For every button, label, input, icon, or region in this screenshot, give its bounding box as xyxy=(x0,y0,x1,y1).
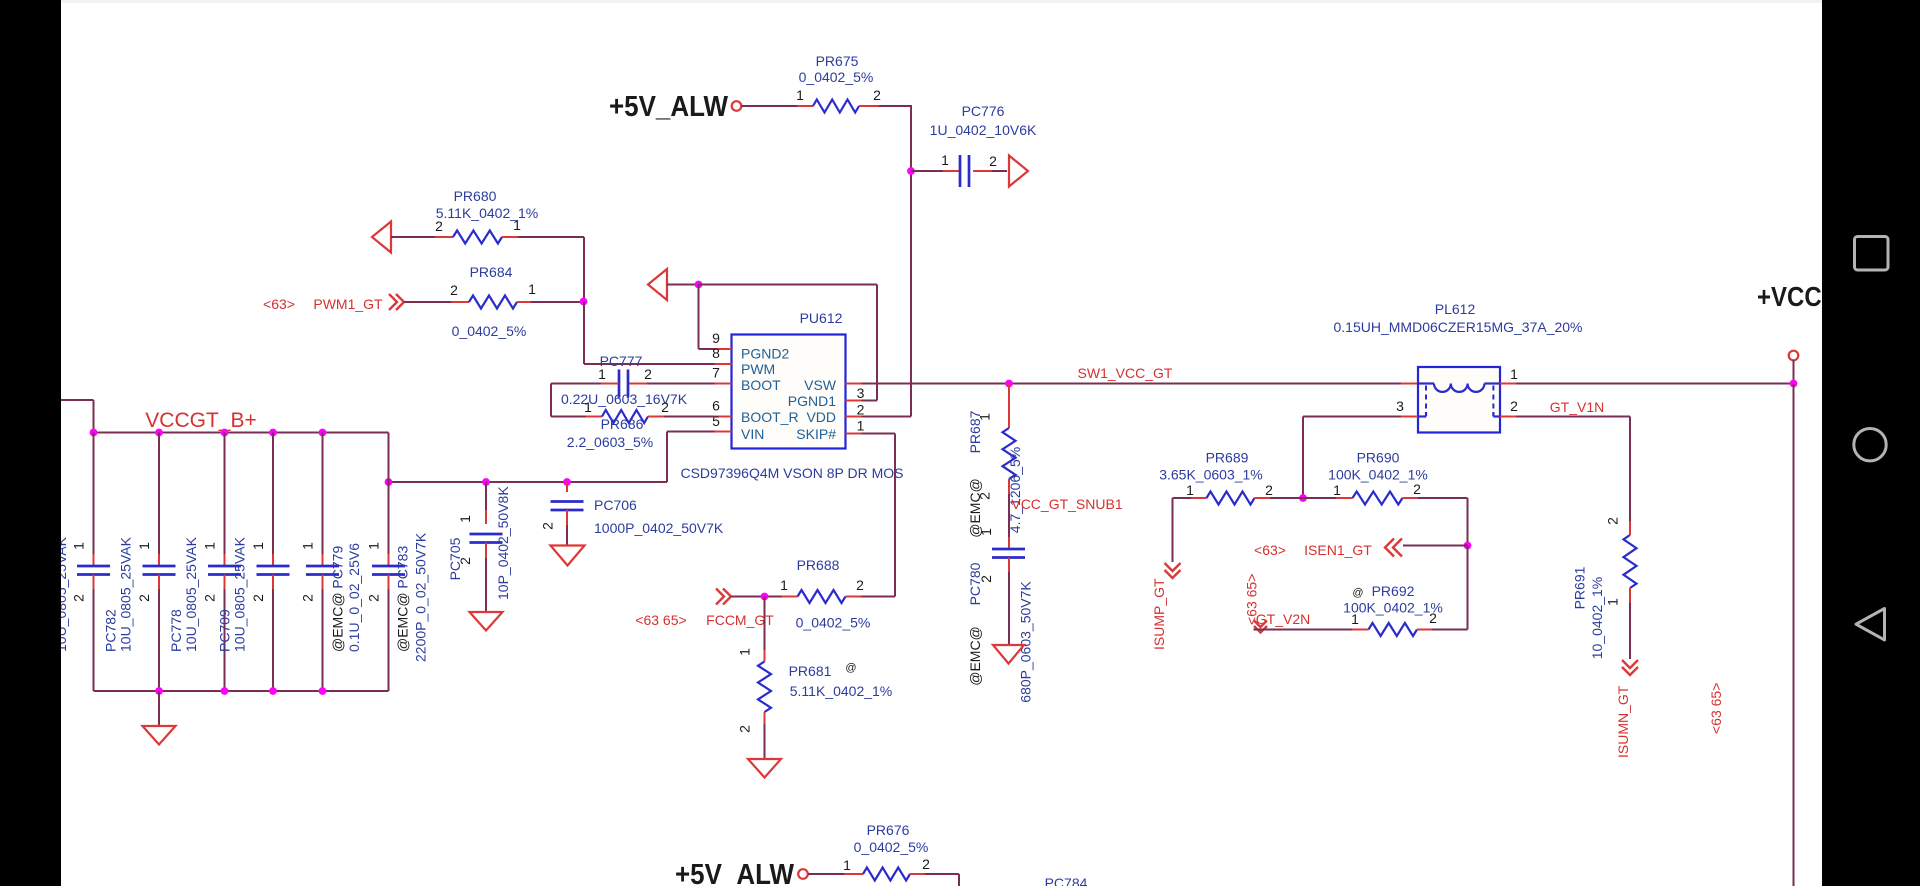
svg-text:PWM1_GT: PWM1_GT xyxy=(313,296,383,312)
wire PR676 pin2 corner xyxy=(925,874,959,886)
svg-text:0_0402_5%: 0_0402_5% xyxy=(854,839,929,855)
svg-text:1: 1 xyxy=(1333,482,1341,498)
svg-text:2: 2 xyxy=(366,594,382,602)
svg-text:1: 1 xyxy=(457,515,473,523)
nav icon home (circle) xyxy=(1854,429,1886,461)
svg-text:10_0402_1%: 10_0402_1% xyxy=(1589,577,1605,660)
ground PC705 xyxy=(470,612,503,631)
wire bus corner down to VIN bus xyxy=(388,433,390,483)
svg-text:1: 1 xyxy=(941,152,949,168)
svg-text:1: 1 xyxy=(843,857,851,873)
node junction bottom bus x273 xyxy=(269,687,277,695)
svg-text:ISUMP_GT: ISUMP_GT xyxy=(1151,578,1167,650)
node junction bus x94 xyxy=(90,429,98,437)
svg-text:5.11K_0402_1%: 5.11K_0402_1% xyxy=(436,205,539,221)
svg-text:0_0402_5%: 0_0402_5% xyxy=(799,69,874,85)
PL612 pin 3 stub xyxy=(1396,398,1418,417)
resistor PR686 xyxy=(567,399,669,450)
ground PR681 xyxy=(748,759,781,778)
resistor PR692 xyxy=(1343,583,1467,636)
resistor PR689 xyxy=(1159,450,1303,505)
wire PR692 pin2 up to ISEN node xyxy=(1467,546,1469,630)
wire BOOT pin7 left xyxy=(647,383,715,385)
wire PC777 to PR686 (left loop) xyxy=(551,384,601,417)
wire +VCC terminal xyxy=(1793,360,1795,384)
svg-text:PR691: PR691 xyxy=(1572,566,1588,609)
port arrow (left) PGND xyxy=(648,269,667,300)
node junction PWM net xyxy=(580,298,588,306)
node junction VIN bus at PC705 xyxy=(482,478,490,486)
capacitor PC706 xyxy=(540,482,724,546)
net label PWM1_GT xyxy=(263,296,383,312)
wire SKIP# down to PR688 xyxy=(861,434,895,597)
svg-text:+5V_ALW: +5V_ALW xyxy=(675,859,795,886)
svg-text:@EMC@: @EMC@ xyxy=(967,626,983,686)
capacitor PC777 xyxy=(561,353,688,407)
svg-text:1: 1 xyxy=(528,281,536,297)
svg-text:PC709: PC709 xyxy=(217,609,233,652)
svg-text:9: 9 xyxy=(712,330,720,346)
svg-text:PL612: PL612 xyxy=(1435,301,1476,317)
svg-text:PR689: PR689 xyxy=(1206,450,1249,466)
svg-text:1000P_0402_50V7K: 1000P_0402_50V7K xyxy=(594,520,724,536)
resistor PR676 xyxy=(843,822,930,881)
node junction bus x224 xyxy=(221,429,229,437)
wire PGND port to junction xyxy=(667,284,699,286)
node junction +VCC xyxy=(1790,380,1798,388)
PU612 pin 5 stub xyxy=(712,413,731,432)
svg-text:PU612: PU612 xyxy=(800,310,843,326)
svg-text:+5V_ALW: +5V_ALW xyxy=(609,91,729,123)
wire +5V_ALW bottom to PR676 xyxy=(808,873,844,875)
inductor PL612 xyxy=(1334,301,1583,433)
svg-text:1: 1 xyxy=(513,217,521,233)
terminal circle +5V_ALW (bottom) xyxy=(798,869,808,879)
wire PR686 pin2 to pin6 xyxy=(664,416,715,418)
resistor PR680 xyxy=(435,188,538,244)
net label GT_V2N xyxy=(1244,574,1311,627)
svg-text:PC705: PC705 xyxy=(447,537,463,580)
wire ISEN1_GT xyxy=(1403,545,1468,547)
svg-text:5: 5 xyxy=(712,413,720,429)
nav icon recents (square) xyxy=(1855,237,1889,271)
capacitor PC784 label xyxy=(1045,875,1088,886)
wire PGND junction to PGND1 xyxy=(699,285,878,401)
svg-text:1: 1 xyxy=(1510,366,1518,382)
svg-text:1: 1 xyxy=(598,366,606,382)
node junction at PC776 tap xyxy=(907,167,915,175)
capacitor PC709 xyxy=(217,433,290,692)
capacitor PC779 xyxy=(300,433,363,692)
ground cap bank xyxy=(143,726,176,745)
svg-text:PR686: PR686 xyxy=(601,416,644,432)
node junction bottom bus x322 xyxy=(319,687,327,695)
svg-text:2.2_0603_5%: 2.2_0603_5% xyxy=(567,434,653,450)
svg-text:2: 2 xyxy=(300,594,316,602)
port arrow (right) at PC776 pin2 xyxy=(1009,156,1028,187)
svg-text:<63 65>: <63 65> xyxy=(1708,683,1724,734)
node junction PGND xyxy=(695,281,703,289)
capacitor bank cap1 (10U_0805_25VAK) xyxy=(53,433,110,692)
wire PR680 pin1 to vertical xyxy=(518,237,584,302)
svg-text:VDD: VDD xyxy=(806,409,836,425)
svg-text:0_0402_5%: 0_0402_5% xyxy=(452,323,527,339)
right phone nav bar xyxy=(1822,0,1920,886)
svg-text:PR688: PR688 xyxy=(797,557,840,573)
wire +VCC down xyxy=(1793,384,1795,886)
svg-text:4.7_1206_5%: 4.7_1206_5% xyxy=(1007,447,1023,533)
svg-text:PGND1: PGND1 xyxy=(788,393,836,409)
svg-text:PC706: PC706 xyxy=(594,497,637,513)
PL612 pin 2 stub xyxy=(1500,398,1518,417)
svg-text:PC776: PC776 xyxy=(962,103,1005,119)
svg-text:0_0402_5%: 0_0402_5% xyxy=(796,615,871,631)
capacitor PC778 xyxy=(168,433,241,692)
svg-text:2: 2 xyxy=(644,366,652,382)
nav icon back (triangle) xyxy=(1856,609,1885,640)
svg-text:2: 2 xyxy=(856,577,864,593)
svg-text:BOOT: BOOT xyxy=(741,377,781,393)
terminal circle +5V_ALW (top) xyxy=(732,101,742,111)
svg-text:VSW: VSW xyxy=(804,377,837,393)
svg-text:6: 6 xyxy=(712,398,720,414)
wire VIN pin5 to bus xyxy=(389,432,715,483)
wire PR690 pin2 down to ISEN node xyxy=(1467,498,1469,546)
capacitor PC782 xyxy=(103,433,176,692)
svg-text:1: 1 xyxy=(202,542,218,550)
PU612 pin 3 stub xyxy=(846,384,878,402)
svg-text:SKIP#: SKIP# xyxy=(796,426,836,442)
svg-text:PGND2: PGND2 xyxy=(741,346,789,362)
resistor PR684 xyxy=(450,264,536,339)
svg-text:1: 1 xyxy=(71,542,87,550)
svg-text:ISEN1_GT: ISEN1_GT xyxy=(1304,542,1372,558)
capacitor PC783 xyxy=(366,482,429,691)
capacitor PC705 xyxy=(447,482,511,612)
svg-text:10U_0805_25VAK: 10U_0805_25VAK xyxy=(232,536,248,652)
net label ISUMN_GT xyxy=(1615,685,1631,758)
PU612 pin 2 stub xyxy=(846,401,865,418)
svg-text:@: @ xyxy=(1352,587,1363,599)
resistor PR675 xyxy=(796,53,881,113)
port chevron ISUMN_GT xyxy=(1622,660,1638,675)
wire +5V_ALW to PR675 pin1 xyxy=(742,105,798,107)
svg-text:1U_0402_10V6K: 1U_0402_10V6K xyxy=(930,122,1037,138)
svg-text:2: 2 xyxy=(1413,481,1421,497)
svg-text:1: 1 xyxy=(136,542,152,550)
svg-text:2: 2 xyxy=(737,725,753,733)
svg-text:1: 1 xyxy=(1605,598,1621,606)
svg-text:1: 1 xyxy=(978,528,994,536)
op-amp U1 PU612 IC body xyxy=(732,310,846,449)
wire port to PR680 xyxy=(391,236,435,238)
resistor PR687 xyxy=(967,384,1023,538)
svg-text:1: 1 xyxy=(1186,482,1194,498)
svg-text:VCC_GT_SNUB1: VCC_GT_SNUB1 xyxy=(1011,496,1122,512)
svg-text:2: 2 xyxy=(857,402,865,418)
PL612 pin 1 stub xyxy=(1500,366,1518,384)
node junction bus x322 xyxy=(319,429,327,437)
node junction bus x159 xyxy=(155,429,163,437)
node junction PR689-PR690 xyxy=(1299,494,1307,502)
node junction VIN bus at PC706 xyxy=(563,478,571,486)
svg-text:2: 2 xyxy=(71,594,87,602)
net label tag <63 65> right xyxy=(1708,683,1724,734)
svg-text:VCCGT_B+: VCCGT_B+ xyxy=(145,409,256,432)
svg-text:PR681: PR681 xyxy=(789,663,832,679)
svg-text:2: 2 xyxy=(661,399,669,415)
PU612 pin 6 stub xyxy=(712,398,731,417)
svg-text:2: 2 xyxy=(1429,610,1437,626)
svg-text:2: 2 xyxy=(250,594,266,602)
svg-text:GT_V1N: GT_V1N xyxy=(1550,399,1604,415)
svg-text:PC778: PC778 xyxy=(168,609,184,652)
node junction bus x273 xyxy=(269,429,277,437)
svg-text:3: 3 xyxy=(857,385,865,401)
PU612 pin names xyxy=(741,346,837,443)
wire PR684 pin1 to junction xyxy=(531,301,584,303)
svg-text:@: @ xyxy=(845,662,856,674)
terminal circle +VCC xyxy=(1789,351,1799,361)
svg-text:0.15UH_MMD06CZER15MG_37A_20%: 0.15UH_MMD06CZER15MG_37A_20% xyxy=(1334,319,1583,335)
svg-text:BOOT_R: BOOT_R xyxy=(741,409,799,425)
svg-text:8: 8 xyxy=(712,345,720,361)
node junction ISEN1 xyxy=(1464,542,1472,550)
svg-text:PR680: PR680 xyxy=(454,188,497,204)
port chevron GT_V2N xyxy=(1254,621,1267,633)
wire ground stub cap bank xyxy=(158,691,160,726)
svg-text:1: 1 xyxy=(1351,611,1359,627)
ground PC706 xyxy=(551,546,585,566)
svg-text:2: 2 xyxy=(1510,398,1518,414)
svg-text:@EMC@ PC783: @EMC@ PC783 xyxy=(395,546,411,652)
svg-text:1: 1 xyxy=(584,399,592,415)
svg-text:2: 2 xyxy=(450,282,458,298)
node junction bottom bus x159 xyxy=(155,687,163,695)
svg-text:7: 7 xyxy=(712,365,720,381)
power net +5V_ALW (bottom) xyxy=(675,859,795,886)
svg-text:2: 2 xyxy=(540,522,556,530)
wire PL612 pin3 to PR689 node xyxy=(1303,417,1401,499)
svg-text:2: 2 xyxy=(1605,517,1621,525)
PU612 pin 9 stub xyxy=(712,330,731,349)
left phone bezel bar xyxy=(0,0,61,886)
power net +5V_ALW (top) xyxy=(609,91,729,123)
net label ISUMP_GT xyxy=(1151,578,1167,650)
PU612 pin 7 stub xyxy=(712,365,731,384)
svg-text:3: 3 xyxy=(1396,398,1404,414)
svg-text:1: 1 xyxy=(780,577,788,593)
resistor PR688 xyxy=(780,557,870,631)
svg-text:2: 2 xyxy=(435,218,443,234)
svg-text:10U_0805_25VAK: 10U_0805_25VAK xyxy=(118,536,134,652)
power net +VCC (cut by bar) xyxy=(1757,281,1855,312)
wire cap bank bottom bus xyxy=(94,690,389,692)
wire GT_V2N to PR692 xyxy=(1254,629,1353,631)
PU612 pin 8 stub xyxy=(712,345,731,364)
wire PGND junction to pin9 xyxy=(699,285,715,350)
PU612 part value xyxy=(680,465,903,481)
svg-text:1: 1 xyxy=(300,542,316,550)
svg-text:0.1U_0_02_25V6: 0.1U_0_02_25V6 xyxy=(346,543,362,652)
svg-text:2: 2 xyxy=(202,594,218,602)
net label SW1_VCC_GT xyxy=(1078,365,1173,381)
svg-text:3.65K_0603_1%: 3.65K_0603_1% xyxy=(1159,467,1263,483)
svg-text:<63>: <63> xyxy=(263,296,295,312)
port chevron ISUMP_GT xyxy=(1165,563,1181,578)
wire junction down to PWM pin xyxy=(584,302,715,365)
ground PC780 xyxy=(993,645,1024,664)
node junction FCCM xyxy=(761,593,769,601)
capacitor PC780 xyxy=(967,528,1034,703)
node junction SW at PR687 xyxy=(1005,380,1013,388)
resistor PR691 xyxy=(1572,517,1637,659)
svg-text:CSD97396Q4M VSON 8P DR MOS: CSD97396Q4M VSON 8P DR MOS xyxy=(680,465,903,481)
svg-text:1: 1 xyxy=(857,418,865,434)
svg-text:@EMC@ PC779: @EMC@ PC779 xyxy=(330,546,346,652)
resistor PR690 xyxy=(1303,450,1468,505)
port chevron ISEN1_GT xyxy=(1385,539,1402,557)
svg-text:PR687: PR687 xyxy=(967,410,983,453)
svg-text:PC784: PC784 xyxy=(1045,875,1088,886)
svg-text:PR675: PR675 xyxy=(816,53,859,69)
wire vertical VDD feed xyxy=(862,105,912,417)
svg-text:PC780: PC780 xyxy=(967,562,983,605)
wire PR689 pin1 to ISUMP port xyxy=(1172,498,1174,562)
svg-text:5.11K_0402_1%: 5.11K_0402_1% xyxy=(790,683,893,699)
svg-text:PC782: PC782 xyxy=(103,609,119,652)
net label FCCM_GT xyxy=(635,612,774,628)
svg-text:PC777: PC777 xyxy=(600,353,643,369)
svg-text:1: 1 xyxy=(796,87,804,103)
power net label VCCGT_B+ xyxy=(145,409,256,432)
net label GT_V1N xyxy=(1550,399,1604,415)
wire FCCM_GT to PR688 xyxy=(731,596,782,598)
svg-text:2: 2 xyxy=(989,153,997,169)
port chevron FCCM_GT xyxy=(716,589,731,605)
svg-text:PR684: PR684 xyxy=(470,264,513,280)
wire VCCGT_B+ entry xyxy=(61,400,94,433)
wire PR675 pin2 to corner xyxy=(879,105,911,107)
PU612 SKIP# stub xyxy=(846,433,862,435)
net label VCC_GT_SNUB1 xyxy=(1011,496,1122,512)
net label ISEN1_GT xyxy=(1254,542,1372,558)
svg-text:2200P_0_02_50V7K: 2200P_0_02_50V7K xyxy=(413,532,429,662)
svg-text:SW1_VCC_GT: SW1_VCC_GT xyxy=(1078,365,1173,381)
svg-text:680P_0603_50V7K: 680P_0603_50V7K xyxy=(1018,581,1034,703)
capacitor PC776 xyxy=(911,103,1037,187)
resistor PR681 xyxy=(737,597,893,760)
svg-text:<63 65>: <63 65> xyxy=(635,612,686,628)
node junction VIN bus at cap6 xyxy=(385,478,393,486)
svg-text:VIN: VIN xyxy=(741,426,764,442)
port arrow (left) at PR680 pin2 xyxy=(372,222,391,253)
port chevron PWM1_GT xyxy=(389,294,404,310)
wire VCCGT_B+ bus xyxy=(94,432,389,434)
wire PWM1_GT to PR684 xyxy=(404,301,451,303)
svg-text:ISUMN_GT: ISUMN_GT xyxy=(1615,685,1631,758)
svg-text:2: 2 xyxy=(873,87,881,103)
PU612 pin 1 stub xyxy=(846,417,878,434)
svg-text:2: 2 xyxy=(922,856,930,872)
wire GT_V1N xyxy=(1516,417,1630,522)
svg-text:<63>: <63> xyxy=(1254,542,1286,558)
svg-text:PWM: PWM xyxy=(741,361,775,377)
wire PL612 pin1 to +VCC xyxy=(1516,383,1794,385)
node junction bottom bus x224 xyxy=(221,687,229,695)
svg-text:2: 2 xyxy=(1265,482,1273,498)
svg-text:PR676: PR676 xyxy=(867,822,910,838)
wire SW to PL612 xyxy=(1401,383,1418,385)
svg-text:2: 2 xyxy=(136,594,152,602)
svg-text:1: 1 xyxy=(366,542,382,550)
svg-text:PR690: PR690 xyxy=(1357,450,1400,466)
svg-text:10P_0402_50V8K: 10P_0402_50V8K xyxy=(495,486,511,600)
svg-text:1: 1 xyxy=(737,648,753,656)
wire SW1_VCC_GT xyxy=(877,383,1401,385)
svg-text:1: 1 xyxy=(250,542,266,550)
svg-text:10U_0805_25VAK: 10U_0805_25VAK xyxy=(183,536,199,652)
svg-text:PR692: PR692 xyxy=(1372,583,1415,599)
